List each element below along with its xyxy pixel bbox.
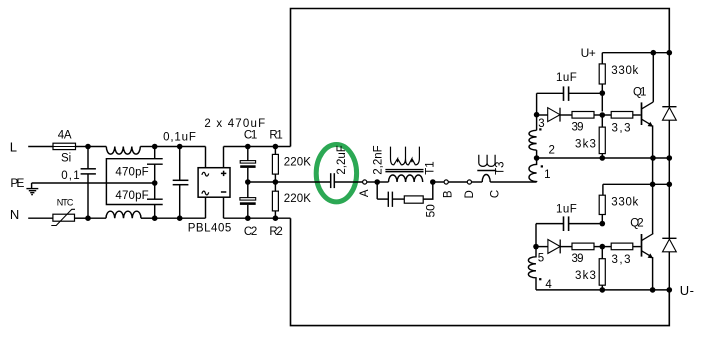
wire mid rail [248, 181, 331, 183]
transistor Q1 [642, 102, 654, 127]
node 3k3 bottom lower [600, 287, 606, 293]
svg-text:470pF: 470pF [115, 167, 148, 179]
green highlight ellipse [316, 145, 356, 202]
label U+ [581, 46, 596, 60]
capacitor 470pF lower [115, 183, 162, 218]
node D connector [467, 180, 471, 184]
transformer T1 core [385, 170, 423, 172]
label 2 x 470uF [204, 118, 265, 130]
label pin 3 [538, 118, 544, 130]
bridge AC input top [205, 147, 207, 168]
wire Q2 emitter [652, 257, 654, 290]
wire N input [28, 217, 53, 219]
diode D1 [662, 53, 676, 158]
wire midpoint rail [603, 183, 669, 185]
capacitor 470pF upper [115, 147, 162, 184]
phase dot pin 3 [539, 128, 541, 130]
terminal PE [10, 176, 24, 190]
svg-text:2,2nF: 2,2nF [372, 145, 384, 174]
bridge ~ symbol bottom [202, 191, 209, 195]
node N2 [152, 215, 158, 221]
label B [442, 190, 454, 198]
label 1uF upper [556, 72, 577, 84]
bridge AC input bottom [205, 197, 207, 218]
node base junction upper [600, 112, 606, 118]
capacitor 1uF lower [536, 216, 602, 231]
node C2 bottom [245, 215, 251, 221]
svg-text:Si: Si [61, 153, 71, 165]
svg-text:R1: R1 [269, 130, 282, 142]
svg-text:T1: T1 [424, 161, 436, 174]
transformer T3 primary [482, 175, 490, 182]
bridge + symbol [221, 171, 226, 176]
diode D2 [662, 184, 676, 290]
wire - rail routing (bottom of box) [291, 218, 670, 325]
capacitor 0,1uF [163, 132, 196, 219]
transformer T3 core [477, 170, 496, 172]
resistor 50 [404, 196, 423, 203]
transformer T1 secondary winding [391, 147, 420, 165]
wire Q1 collector [652, 53, 654, 102]
svg-text:NTC: NTC [57, 198, 74, 208]
wire Q1 emitter [652, 125, 654, 158]
resistor 39 lower [572, 243, 602, 250]
svg-text:1: 1 [544, 169, 550, 181]
node base junction lower [600, 244, 606, 250]
svg-text:3,3: 3,3 [612, 122, 631, 134]
node R2 bottom [273, 215, 279, 221]
svg-text:C2: C2 [244, 226, 257, 238]
svg-text:39: 39 [572, 253, 584, 265]
resistor 330k upper [599, 53, 605, 93]
wire - rail [224, 217, 291, 219]
wire snubber right [423, 182, 433, 199]
wire N3 to bridge [180, 217, 206, 219]
label C [490, 190, 502, 198]
terminal L [10, 140, 17, 155]
label 3k3 lower [575, 270, 596, 282]
label T3 [495, 161, 507, 174]
wire snubber mid [392, 198, 404, 200]
bridge + output [223, 147, 225, 168]
diode D4 [536, 240, 572, 254]
label pin 5 [538, 253, 544, 265]
svg-text:C1: C1 [244, 130, 257, 142]
capacitor 2,2nF [388, 192, 392, 207]
resistor 39 upper [572, 112, 602, 119]
capacitor 0,1 [61, 147, 96, 219]
node mid R1R2 [273, 179, 279, 185]
label 1uF lower [556, 204, 577, 216]
svg-text:330k: 330k [611, 65, 638, 77]
label 330k upper [611, 65, 638, 77]
node U+ Q1 [651, 50, 657, 56]
svg-text:3: 3 [538, 118, 544, 130]
wire A to junction [367, 181, 375, 183]
node emitter rail Q2 [650, 287, 656, 293]
svg-text:3k3: 3k3 [575, 270, 596, 282]
svg-text:330k: 330k [611, 197, 638, 209]
wire B to D [448, 181, 467, 183]
wire Q2 collector [652, 184, 654, 233]
svg-text:2 x 470uF: 2 x 470uF [204, 118, 265, 130]
svg-text:T3: T3 [495, 161, 507, 174]
wire N2 to N3 [155, 217, 180, 219]
node L1 [85, 144, 91, 150]
winding T3 pin 1 [529, 158, 537, 182]
terminal N [10, 207, 19, 222]
label D [464, 190, 476, 198]
node B connector [444, 180, 448, 184]
wire fuse to node [76, 146, 89, 148]
capacitor C1 [240, 147, 255, 183]
node winding-2 [534, 155, 540, 161]
label Q2 [630, 218, 643, 230]
svg-text:A: A [359, 189, 371, 197]
node PE-Ycap [152, 180, 158, 186]
wire to T1 [377, 181, 388, 183]
resistor R1 [272, 147, 278, 183]
node diode junction lower [533, 244, 539, 250]
bridge rectifier PBL405 body [198, 168, 230, 198]
wire 330k junction to base node [601, 93, 603, 111]
svg-text:R2: R2 [269, 226, 282, 238]
node N1 [85, 215, 91, 221]
wire T3 to winding [490, 181, 536, 183]
label 39 upper [572, 121, 584, 133]
svg-text:0,1uF: 0,1uF [163, 132, 196, 144]
label 39 lower [572, 253, 584, 265]
svg-text:3k3: 3k3 [575, 139, 596, 151]
wire emitter rail [537, 157, 670, 159]
svg-text:50: 50 [424, 204, 438, 218]
node U- D2 [667, 287, 673, 293]
wire + rail [224, 146, 291, 148]
svg-text:0,1: 0,1 [61, 170, 79, 182]
svg-text:220K: 220K [284, 157, 311, 169]
bridge - output wire [223, 197, 225, 218]
transformer T3 secondary winding [479, 155, 495, 167]
winding T3 pins 5-4 [528, 247, 536, 290]
wire L3 to bridge [180, 146, 206, 148]
node mid C1C2 [245, 179, 251, 185]
wire node to choke L [88, 146, 106, 148]
wire T1 to B [433, 181, 444, 183]
resistor 3,3 upper [602, 112, 640, 119]
wire L2 to node L3 [155, 146, 180, 148]
transistor Q2 [642, 234, 654, 259]
label T1 [424, 161, 436, 174]
svg-text:2,2uF: 2,2uF [336, 145, 348, 174]
label A [359, 189, 371, 197]
resistor 3k3 lower [599, 247, 605, 290]
resistor 3k3 upper [599, 115, 605, 158]
svg-text:D: D [464, 190, 476, 198]
label pin 1 [544, 169, 550, 181]
label 220K lower [284, 193, 311, 205]
winding T3 pins 3-2 [529, 115, 537, 158]
label PBL405 [188, 222, 232, 234]
node 1uF-330k junction lower [600, 221, 606, 227]
wire U- rail [536, 289, 669, 291]
node 3k3 bottom [600, 155, 606, 161]
svg-text:220K: 220K [284, 193, 311, 205]
node midpoint D2 [667, 182, 673, 188]
resistor 330k lower [599, 184, 605, 223]
svg-text:4A: 4A [58, 130, 72, 142]
fuse Si 4A [53, 130, 76, 165]
node emitter rail D1 [667, 155, 673, 161]
node C1 top [245, 144, 251, 150]
label 220K upper [284, 157, 311, 169]
label pin 2 [549, 145, 555, 157]
thermistor NTC [51, 198, 75, 226]
wire 1uF corner down lower [535, 224, 537, 247]
svg-text:Q1: Q1 [633, 86, 646, 98]
node L2 [152, 144, 158, 150]
wire node to choke N [88, 217, 106, 219]
node T1 left [374, 179, 380, 185]
svg-text:2: 2 [549, 145, 555, 157]
label 2,2uF [336, 145, 348, 174]
node midpoint Q2 [650, 182, 656, 188]
label 330k lower [611, 197, 638, 209]
choke L winding (top) [106, 147, 140, 155]
wire D1 to midpoint rail [668, 158, 670, 184]
label 3,3 lower [612, 254, 631, 266]
label U- [680, 283, 694, 298]
svg-text:5: 5 [538, 253, 544, 265]
wire choke L to node [140, 146, 154, 148]
label 2,2nF [372, 145, 384, 174]
svg-text:U+: U+ [581, 46, 596, 60]
bridge - symbol [221, 191, 226, 193]
resistor R2 [272, 182, 278, 218]
wire 1uF corner down [536, 93, 538, 114]
earth ground symbol [26, 183, 38, 195]
wire PE rail [32, 182, 155, 184]
svg-text:1uF: 1uF [556, 72, 577, 84]
node emitter rail Q1 [650, 155, 656, 161]
choke N winding (bottom) [106, 211, 141, 218]
label R2 [269, 226, 282, 238]
bridge ~ symbol top [202, 172, 209, 176]
wire L input [28, 146, 53, 148]
label R1 [269, 130, 282, 142]
svg-text:PE: PE [10, 176, 24, 190]
transformer T1 primary [389, 175, 423, 182]
node N3 [177, 215, 183, 221]
svg-text:B: B [442, 190, 454, 198]
node L3 [177, 144, 183, 150]
capacitor 2,2uF [331, 173, 363, 188]
svg-text:1uF: 1uF [556, 204, 577, 216]
node diode junction upper [534, 112, 540, 118]
node T1 right [430, 179, 436, 185]
svg-text:PBL405: PBL405 [188, 222, 232, 234]
wire choke N to node [141, 217, 155, 219]
diode D3 [537, 108, 572, 122]
node A connector [363, 180, 367, 184]
wire U+ rail [602, 52, 669, 54]
wire + rail routing (top of box) [291, 9, 670, 147]
node 1uF-330k junction [600, 90, 606, 96]
phase dot pin 4 [539, 278, 541, 280]
phase dot pin 1 [541, 165, 543, 167]
svg-text:L: L [10, 140, 17, 155]
label 50 [424, 204, 438, 218]
label Q1 [633, 86, 646, 98]
svg-text:Q2: Q2 [630, 218, 643, 230]
svg-text:3,3: 3,3 [612, 254, 631, 266]
wire snubber bottom left [377, 198, 388, 200]
node U+ D1 [667, 50, 673, 56]
capacitor C2 [240, 182, 256, 218]
resistor 3,3 lower [602, 243, 640, 250]
svg-text:470pF: 470pF [115, 190, 148, 202]
wire NTC to node [75, 217, 89, 219]
label 3k3 upper [575, 139, 596, 151]
capacitor 1uF upper [537, 86, 603, 101]
svg-text:U-: U- [680, 283, 694, 298]
label pin 4 [545, 279, 552, 291]
label C1 [244, 130, 257, 142]
svg-text:N: N [10, 207, 19, 222]
node R1 top [273, 144, 279, 150]
label 3,3 upper [612, 122, 631, 134]
wire D to T3 [472, 181, 483, 183]
svg-text:39: 39 [572, 121, 584, 133]
label C2 [244, 226, 257, 238]
wire snubber left [376, 182, 378, 199]
wire Y-cap outer loop [106, 159, 162, 205]
wire Q1 emitter to midpoint rail [652, 158, 654, 184]
svg-text:C: C [490, 190, 502, 198]
